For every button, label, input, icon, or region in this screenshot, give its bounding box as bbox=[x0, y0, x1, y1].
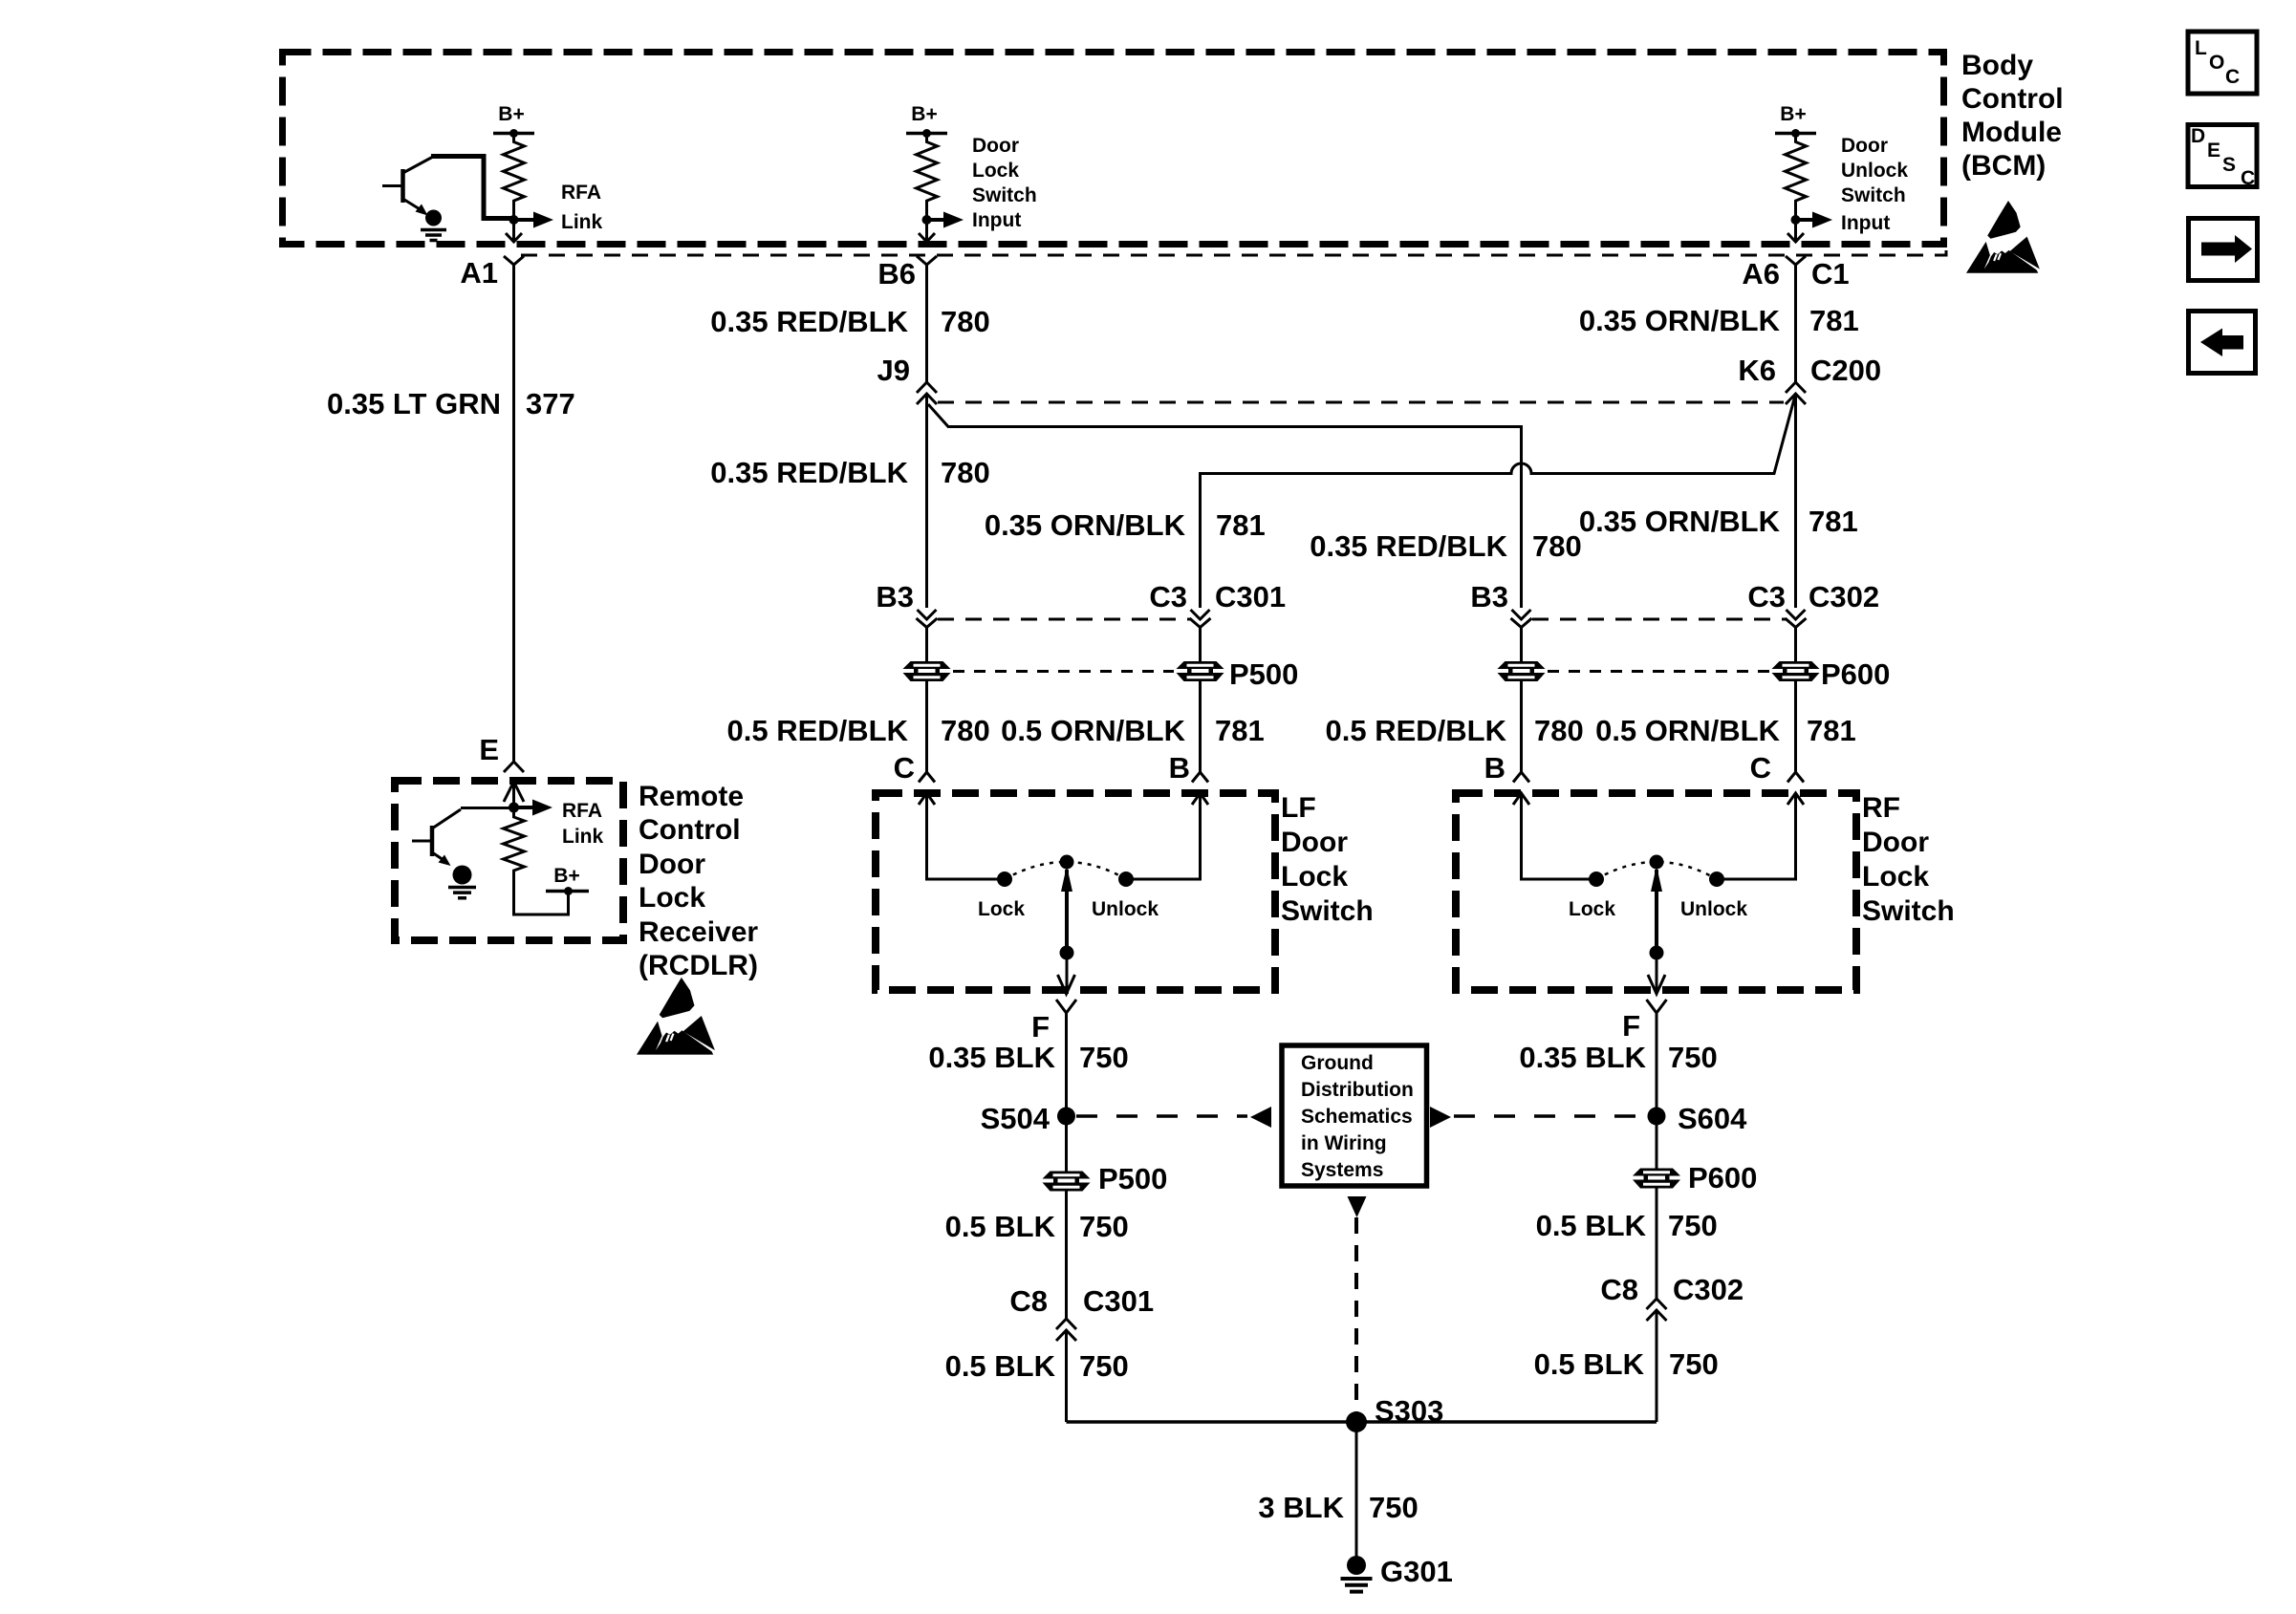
wire (C302 B to RF switch B) bbox=[1520, 628, 1523, 773]
svg-text:C: C bbox=[2225, 66, 2240, 88]
svg-text:781: 781 bbox=[1809, 505, 1858, 538]
wire (C302 C to RF switch C) bbox=[1794, 628, 1797, 773]
wire (node to pin B6) bbox=[925, 220, 928, 242]
svg-text:C3: C3 bbox=[1149, 580, 1187, 613]
svg-text:780: 780 bbox=[1534, 714, 1584, 747]
ESD sensitive device symbol (RCDLR) bbox=[637, 978, 715, 1055]
svg-text:A1: A1 bbox=[460, 256, 498, 290]
BCM connector boundary dashed line bbox=[521, 247, 1946, 255]
svg-text:Receiver: Receiver bbox=[639, 916, 758, 948]
wire (C302 C8 to S303, 0.5 BLK 750) bbox=[1656, 1310, 1658, 1422]
wire (K6 down to RF C3, 0.35 ORN/BLK 781) bbox=[1794, 394, 1797, 608]
svg-text:781: 781 bbox=[1807, 714, 1856, 747]
wire (C301 branch to K6, ORN/BLK, hops over RED/BLK wire) bbox=[1201, 396, 1796, 608]
splice S303 bbox=[1346, 1411, 1367, 1432]
svg-text:750: 750 bbox=[1079, 1210, 1129, 1243]
svg-text:C200: C200 bbox=[1810, 354, 1881, 387]
svg-text:Body: Body bbox=[1961, 50, 2033, 81]
LF switch wiper arrow bbox=[1065, 870, 1069, 953]
in-line connector C301 dashed line bbox=[938, 618, 1190, 621]
svg-text:0.5 RED/BLK: 0.5 RED/BLK bbox=[727, 714, 909, 747]
svg-text:Input: Input bbox=[972, 209, 1021, 231]
svg-text:K6: K6 bbox=[1738, 354, 1776, 387]
svg-text:O: O bbox=[2209, 52, 2224, 74]
svg-text:Distribution: Distribution bbox=[1301, 1079, 1414, 1101]
Door Lock Switch Input arrow bbox=[927, 218, 946, 222]
RF switch lock contact wire bbox=[1513, 793, 1529, 805]
node (RFA link junction) bbox=[509, 215, 519, 225]
svg-text:750: 750 bbox=[1668, 1041, 1718, 1074]
RF switch unlock contact wire bbox=[1787, 793, 1804, 805]
svg-text:Lock: Lock bbox=[1862, 861, 1929, 893]
svg-text:780: 780 bbox=[941, 714, 990, 747]
svg-text:Door: Door bbox=[1281, 827, 1348, 858]
svg-text:B: B bbox=[1169, 751, 1190, 785]
svg-text:L: L bbox=[2195, 37, 2207, 59]
wire (resistor to B+ feed) bbox=[514, 878, 569, 915]
wire (J9 down to LF B3, 0.35 RED/BLK 780) bbox=[925, 394, 928, 608]
wire (node to pins A6/C1) bbox=[1794, 220, 1797, 242]
transistor Q (BCM RFA link driver) bbox=[382, 184, 403, 187]
in-line connector C302 dashed line bbox=[1532, 618, 1786, 621]
svg-text:Unlock: Unlock bbox=[1680, 898, 1747, 920]
svg-text:B+: B+ bbox=[553, 865, 579, 887]
node (door lock switch input junction) bbox=[922, 215, 932, 225]
LF switch lock contact bbox=[997, 872, 1012, 887]
svg-text:(BCM): (BCM) bbox=[1961, 150, 2046, 182]
ESD sensitive device symbol (BCM) bbox=[1966, 201, 2040, 273]
svg-text:Lock: Lock bbox=[978, 898, 1025, 920]
svg-text:Door: Door bbox=[639, 849, 705, 880]
svg-text:Lock: Lock bbox=[1281, 861, 1348, 893]
svg-text:0.35 LT GRN: 0.35 LT GRN bbox=[327, 387, 501, 420]
svg-text:0.35 BLK: 0.35 BLK bbox=[1519, 1041, 1646, 1074]
svg-text:RF: RF bbox=[1862, 792, 1900, 824]
svg-text:781: 781 bbox=[1809, 304, 1859, 337]
svg-text:0.35 ORN/BLK: 0.35 ORN/BLK bbox=[1579, 304, 1781, 337]
svg-text:S303: S303 bbox=[1375, 1394, 1443, 1428]
svg-text:C301: C301 bbox=[1083, 1284, 1154, 1318]
DESC button bbox=[2188, 125, 2257, 187]
svg-text:C3: C3 bbox=[1747, 580, 1786, 613]
grommet P500 (ORN/BLK wire) bbox=[1177, 661, 1224, 681]
svg-text:780: 780 bbox=[1532, 529, 1582, 563]
reference dashed line to S303 bbox=[1354, 1217, 1358, 1412]
svg-text:B3: B3 bbox=[1470, 580, 1508, 613]
svg-text:Door: Door bbox=[1862, 827, 1929, 858]
svg-text:P600: P600 bbox=[1688, 1161, 1757, 1194]
resistor (RCDLR pull-down) bbox=[504, 807, 525, 878]
grommet P600 (BLK wire) bbox=[1633, 1169, 1680, 1189]
svg-text:E: E bbox=[479, 733, 499, 766]
svg-text:G301: G301 bbox=[1380, 1555, 1453, 1588]
pin A1 bbox=[504, 256, 524, 265]
wire (RF F to S604, 0.35 BLK 750) bbox=[1656, 1013, 1658, 1299]
Ground Distribution Schematics callout box bbox=[1282, 1045, 1427, 1186]
wire (S303 to G301, 3 BLK 750) bbox=[1355, 1422, 1358, 1558]
grommet P500 dashed link bbox=[953, 670, 1174, 673]
RCDLR pin E entry arrow bbox=[504, 782, 524, 802]
ground G301 bbox=[1347, 1556, 1366, 1575]
svg-text:B: B bbox=[1484, 751, 1505, 785]
svg-text:B6: B6 bbox=[877, 257, 916, 291]
svg-text:Lock: Lock bbox=[972, 160, 1019, 182]
LOC button bbox=[2188, 32, 2257, 94]
svg-text:0.5 ORN/BLK: 0.5 ORN/BLK bbox=[1001, 714, 1186, 747]
LF Door Lock Switch dashed box bbox=[876, 793, 1275, 990]
svg-text:3 BLK: 3 BLK bbox=[1258, 1491, 1344, 1524]
svg-text:0.35 RED/BLK: 0.35 RED/BLK bbox=[710, 456, 908, 489]
svg-text:780: 780 bbox=[941, 305, 990, 338]
splice S604 bbox=[1648, 1108, 1666, 1126]
wire (C301 C8 to S303, 0.5 BLK 750) bbox=[1065, 1330, 1068, 1422]
back arrow button bbox=[2189, 312, 2256, 374]
wire (C301 C to LF switch B) bbox=[1199, 628, 1202, 773]
svg-text:C: C bbox=[2241, 167, 2255, 189]
RF switch wiper arc bbox=[1596, 862, 1717, 879]
transistor Q (RCDLR RFA link driver) bbox=[412, 840, 432, 843]
svg-text:Module: Module bbox=[1961, 117, 2062, 148]
RF switch pivot bbox=[1650, 855, 1664, 870]
svg-text:0.35 RED/BLK: 0.35 RED/BLK bbox=[710, 305, 908, 338]
wire (B6 to J9, 0.35 RED/BLK 780) bbox=[925, 265, 928, 382]
svg-text:E: E bbox=[2207, 140, 2220, 161]
svg-text:J9: J9 bbox=[877, 354, 910, 387]
svg-text:Switch: Switch bbox=[972, 184, 1037, 206]
RF switch unlock contact bbox=[1709, 872, 1724, 887]
svg-text:Systems: Systems bbox=[1301, 1159, 1383, 1181]
wire (LF F to S504, 0.35 BLK 750) bbox=[1065, 1013, 1068, 1319]
svg-text:Ground: Ground bbox=[1301, 1052, 1374, 1074]
RF switch wiper arrow bbox=[1655, 870, 1658, 953]
svg-text:S604: S604 bbox=[1678, 1102, 1747, 1135]
ground (BCM transistor emitter) bbox=[425, 210, 442, 226]
RF switch common node bbox=[1650, 946, 1664, 960]
svg-text:P600: P600 bbox=[1821, 657, 1890, 691]
svg-text:0.5 BLK: 0.5 BLK bbox=[1536, 1209, 1647, 1242]
svg-text:0.5 RED/BLK: 0.5 RED/BLK bbox=[1326, 714, 1507, 747]
svg-text:C302: C302 bbox=[1809, 580, 1879, 613]
svg-text:0.5 BLK: 0.5 BLK bbox=[945, 1210, 1056, 1243]
svg-text:(RCDLR): (RCDLR) bbox=[639, 950, 758, 981]
RF switch lock contact bbox=[1589, 872, 1604, 887]
svg-text:780: 780 bbox=[941, 456, 990, 489]
LF switch lock contact wire bbox=[919, 793, 935, 805]
RF Door Lock Switch dashed box bbox=[1456, 793, 1856, 990]
wire (RFA link node to pin A1) bbox=[512, 220, 515, 242]
reference arrow (below ground distribution box) bbox=[1348, 1196, 1367, 1217]
svg-text:Switch: Switch bbox=[1841, 184, 1906, 206]
svg-text:Unlock: Unlock bbox=[1841, 160, 1908, 182]
svg-text:C8: C8 bbox=[1600, 1273, 1638, 1306]
RF switch common wire to pin F bbox=[1656, 953, 1658, 994]
svg-text:750: 750 bbox=[1669, 1347, 1719, 1381]
svg-text:Control: Control bbox=[639, 814, 741, 846]
svg-text:0.5 BLK: 0.5 BLK bbox=[1534, 1347, 1645, 1381]
ground (RCDLR transistor emitter) bbox=[453, 866, 472, 885]
node (door unlock switch input junction) bbox=[1791, 215, 1801, 225]
svg-text:Door: Door bbox=[972, 135, 1019, 157]
grommet P500 (BLK wire) bbox=[1043, 1172, 1091, 1192]
S504 reference dashed line bbox=[1076, 1114, 1247, 1118]
svg-text:C: C bbox=[1750, 751, 1771, 785]
svg-text:Control: Control bbox=[1961, 83, 2064, 115]
svg-text:781: 781 bbox=[1216, 508, 1266, 542]
node (RCDLR RFA link junction) bbox=[509, 803, 519, 813]
svg-text:Link: Link bbox=[561, 211, 602, 233]
svg-text:781: 781 bbox=[1215, 714, 1265, 747]
LF switch common node bbox=[1060, 946, 1074, 960]
svg-text:P500: P500 bbox=[1229, 657, 1298, 691]
svg-text:Lock: Lock bbox=[639, 882, 705, 914]
pin B6 bbox=[917, 256, 937, 265]
svg-text:750: 750 bbox=[1668, 1209, 1718, 1242]
splice S504 bbox=[1057, 1108, 1075, 1126]
pin F (LF door lock switch) bbox=[1056, 1000, 1076, 1013]
reference arrow (right of ground distribution box) bbox=[1430, 1107, 1451, 1128]
grommet P600 dashed link bbox=[1548, 670, 1769, 673]
reference arrow (left of ground distribution box) bbox=[1250, 1107, 1271, 1128]
svg-text:S: S bbox=[2222, 154, 2236, 176]
svg-text:C301: C301 bbox=[1215, 580, 1286, 613]
svg-text:A6: A6 bbox=[1742, 257, 1780, 291]
RFA Link output arrow bbox=[514, 218, 536, 222]
svg-text:0.35 ORN/BLK: 0.35 ORN/BLK bbox=[985, 508, 1186, 542]
svg-text:0.35 RED/BLK: 0.35 RED/BLK bbox=[1310, 529, 1507, 563]
wire (A1 to RCDLR pin E, 0.35 LT GRN 377) bbox=[512, 265, 515, 762]
svg-text:Switch: Switch bbox=[1281, 895, 1374, 927]
grommet P600 (ORN/BLK wire) bbox=[1772, 661, 1820, 681]
svg-text:0.5 BLK: 0.5 BLK bbox=[945, 1349, 1056, 1383]
svg-text:0.35 BLK: 0.35 BLK bbox=[928, 1041, 1055, 1074]
svg-text:Remote: Remote bbox=[639, 781, 744, 812]
svg-text:Unlock: Unlock bbox=[1092, 898, 1159, 920]
svg-text:F: F bbox=[1031, 1010, 1050, 1044]
in-line connector C200 dashed line bbox=[938, 401, 1784, 404]
wire (ground bus S303) bbox=[1067, 1420, 1657, 1424]
wire (E to RFA link node) bbox=[512, 782, 515, 807]
svg-text:Lock: Lock bbox=[1569, 898, 1615, 920]
svg-text:0.35 ORN/BLK: 0.35 ORN/BLK bbox=[1579, 505, 1781, 538]
svg-text:RFA: RFA bbox=[561, 182, 601, 204]
svg-text:Switch: Switch bbox=[1862, 895, 1955, 927]
svg-text:P500: P500 bbox=[1098, 1162, 1167, 1195]
svg-text:377: 377 bbox=[526, 387, 575, 420]
svg-text:750: 750 bbox=[1079, 1041, 1129, 1074]
svg-text:C8: C8 bbox=[1009, 1284, 1048, 1318]
svg-text:Link: Link bbox=[562, 826, 603, 848]
forward arrow button bbox=[2189, 219, 2258, 281]
LF switch unlock contact wire bbox=[1192, 793, 1208, 805]
RFA Link arrow (RCDLR) bbox=[514, 806, 535, 809]
svg-text:Door: Door bbox=[1841, 135, 1888, 157]
svg-text:0.5 ORN/BLK: 0.5 ORN/BLK bbox=[1595, 714, 1781, 747]
grommet P500 (RED/BLK wire) bbox=[903, 661, 951, 681]
wire (C301 B to LF switch C) bbox=[925, 628, 928, 773]
svg-text:Schematics: Schematics bbox=[1301, 1106, 1413, 1128]
LF switch wiper arc bbox=[1005, 862, 1126, 879]
svg-text:S504: S504 bbox=[981, 1102, 1051, 1135]
svg-text:B+: B+ bbox=[911, 103, 937, 125]
svg-text:RFA: RFA bbox=[562, 800, 602, 822]
grommet P600 (RED/BLK wire) bbox=[1498, 661, 1546, 681]
Remote Control Door Lock Receiver dashed box bbox=[395, 781, 623, 940]
wire (A6/C1 to K6, 0.35 ORN/BLK 781) bbox=[1794, 265, 1797, 382]
svg-text:C302: C302 bbox=[1673, 1273, 1744, 1306]
S604 reference dashed line bbox=[1454, 1114, 1646, 1118]
svg-text:C: C bbox=[894, 751, 915, 785]
svg-text:B3: B3 bbox=[876, 580, 914, 613]
wire (BCM collector to RFA link node, thick) bbox=[431, 157, 514, 219]
Door Unlock Switch Input arrow bbox=[1796, 218, 1815, 222]
svg-text:Input: Input bbox=[1841, 212, 1890, 234]
svg-text:B+: B+ bbox=[1780, 103, 1806, 125]
svg-text:750: 750 bbox=[1369, 1491, 1419, 1524]
svg-text:C1: C1 bbox=[1811, 257, 1850, 291]
pin F (RF door lock switch) bbox=[1647, 1000, 1667, 1013]
wire (J9 branch to RF door lock switch, RED/BLK) bbox=[928, 404, 1522, 608]
LF switch unlock contact bbox=[1118, 872, 1134, 887]
svg-text:B+: B+ bbox=[498, 103, 524, 125]
pin A6 bbox=[1786, 256, 1806, 265]
svg-text:LF: LF bbox=[1281, 792, 1316, 824]
svg-text:750: 750 bbox=[1079, 1349, 1129, 1383]
svg-text:D: D bbox=[2191, 125, 2205, 147]
LF switch common wire to pin F bbox=[1066, 953, 1069, 994]
LF switch pivot bbox=[1060, 855, 1074, 870]
svg-text:in Wiring: in Wiring bbox=[1301, 1132, 1387, 1154]
svg-text:F: F bbox=[1622, 1009, 1640, 1043]
Body Control Module (BCM) dashed box bbox=[283, 53, 1944, 245]
